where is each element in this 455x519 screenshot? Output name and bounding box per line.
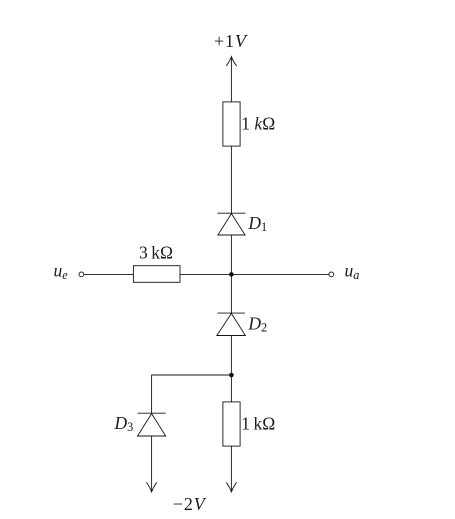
wire D1 to node A	[230, 235, 232, 274]
svg-text:ua: ua	[345, 261, 360, 283]
svg-text:1 kΩ: 1 kΩ	[241, 114, 275, 134]
svg-text:1 kΩ: 1 kΩ	[241, 414, 275, 434]
svg-text:D3: D3	[114, 413, 134, 434]
svg-text:−2V: −2V	[173, 494, 207, 514]
wire R2 to ua terminal	[180, 273, 329, 275]
wire node A to D2	[230, 274, 232, 313]
terminal ue	[79, 272, 84, 277]
resistor R1	[223, 102, 240, 146]
svg-text:D1: D1	[247, 213, 267, 234]
arrow down left	[147, 483, 157, 492]
wire R3 to -2V arrow	[230, 446, 232, 492]
wire node B to R3	[230, 375, 232, 402]
wire node B to left branch	[152, 375, 232, 413]
svg-text:3 kΩ: 3 kΩ	[139, 243, 173, 263]
wire D2 to node B	[230, 336, 232, 376]
node B junction dot	[229, 373, 234, 378]
diode D1	[217, 213, 245, 235]
svg-text:D2: D2	[247, 314, 267, 335]
wire R1 to D1	[230, 146, 232, 213]
wire top arrow to R1	[230, 57, 232, 102]
power arrow +1V	[226, 57, 236, 66]
wire ue terminal to R2	[84, 273, 134, 275]
wire D3 to -2V arrow	[151, 436, 153, 492]
arrow down right	[226, 483, 236, 492]
diode D2	[217, 313, 246, 335]
svg-text:+1V: +1V	[214, 31, 248, 51]
diode D3	[138, 413, 166, 436]
resistor R2 3k	[133, 266, 180, 283]
svg-text:ue: ue	[54, 261, 69, 283]
terminal ua	[329, 272, 334, 277]
node A junction dot	[229, 272, 234, 277]
resistor R3 1k	[223, 402, 240, 446]
